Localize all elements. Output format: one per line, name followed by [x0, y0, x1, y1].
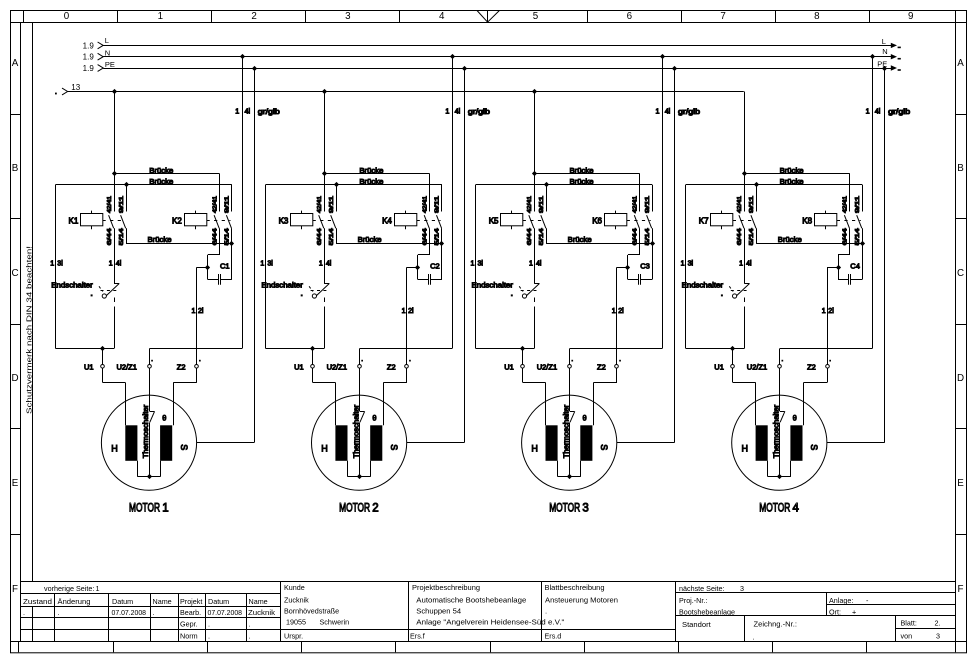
svg-text:Brücke: Brücke: [148, 235, 172, 244]
svg-text:07.07.2008: 07.07.2008: [208, 608, 243, 617]
svg-text:1: 1: [656, 107, 660, 116]
wire 13 drop to K7 contact: [744, 92, 746, 174]
svg-text:N: N: [882, 47, 887, 56]
contact K7.1 terminals 42/41 6/44: [744, 174, 746, 212]
svg-text:K4: K4: [382, 216, 392, 225]
svg-text:L: L: [105, 36, 109, 45]
wire left loop: [685, 185, 687, 349]
junction bridge 1: [532, 171, 537, 176]
svg-text:Thermoschalter: Thermoschalter: [351, 404, 360, 458]
contactor coil K1: [81, 214, 103, 226]
source arrow L left 1.9: [98, 42, 104, 49]
svg-text:S: S: [599, 444, 609, 450]
junction 13/K3: [322, 89, 327, 94]
svg-text:3: 3: [740, 584, 744, 593]
linkage dashes K7: [733, 220, 756, 222]
svg-text:Anlage:: Anlage:: [829, 596, 853, 605]
svg-text:Datum: Datum: [208, 597, 229, 606]
wire K4 to capacitor node: [418, 254, 430, 256]
svg-text:.: .: [23, 608, 25, 617]
svg-text:4l: 4l: [875, 107, 881, 116]
wire N drop to U2/Z1: [242, 57, 244, 349]
svg-text:Urspr.: Urspr.: [284, 632, 303, 641]
svg-text:A: A: [12, 58, 19, 69]
terminal Z2: [405, 365, 409, 369]
svg-text:Kunde: Kunde: [284, 583, 305, 592]
svg-text:S: S: [809, 444, 819, 450]
wire bridge 1 (K1->K2): [114, 173, 220, 175]
svg-text:4l: 4l: [116, 261, 122, 268]
svg-text:1: 1: [319, 261, 323, 268]
svg-text:2l: 2l: [408, 308, 414, 315]
svg-text:Z2: Z2: [807, 363, 816, 372]
svg-text:Blatt:: Blatt:: [901, 618, 917, 627]
terminal U1: [732, 349, 734, 365]
source arrow PE left 1.9: [98, 65, 104, 72]
svg-text:Z2: Z2: [387, 363, 396, 372]
terminal Z2: [195, 365, 199, 369]
source arrow 13 left: [62, 88, 68, 95]
svg-text:Brücke: Brücke: [359, 177, 383, 186]
svg-text:5/14: 5/14: [645, 228, 651, 245]
svg-text:1.9: 1.9: [83, 64, 95, 73]
svg-text:4l: 4l: [536, 261, 542, 268]
wire bridge 2 (loop->K4): [266, 184, 442, 186]
svg-text:Projektbeschreibung: Projektbeschreibung: [412, 583, 480, 592]
svg-text:gr/glb: gr/glb: [468, 107, 490, 116]
svg-text:U1: U1: [504, 363, 514, 372]
junction bridge 1: [322, 171, 327, 176]
svg-text:6/44: 6/44: [212, 228, 218, 245]
wire N drop to U2/Z1: [662, 57, 664, 349]
winding H motor 4: [756, 425, 768, 461]
svg-text:Datum: Datum: [112, 597, 133, 606]
svg-text:θ: θ: [793, 413, 797, 422]
contact K1.1 terminals 42/41 6/44: [114, 174, 116, 212]
svg-text:H: H: [531, 444, 538, 454]
svg-text:2l: 2l: [198, 308, 204, 315]
thermal switch motor 1: [149, 368, 151, 411]
svg-text:D: D: [11, 373, 18, 384]
contactor coil K4: [395, 214, 417, 226]
svg-text:U1: U1: [294, 363, 304, 372]
wire winding commons: [347, 461, 349, 477]
winding S motor 1: [160, 425, 172, 461]
junction U1 tap: [100, 346, 105, 351]
svg-text:4l: 4l: [746, 261, 752, 268]
wire PE rail: [103, 68, 893, 70]
junction PE: [252, 66, 257, 71]
junction bridge 2: [754, 182, 759, 187]
source arrow N left 1.9: [98, 53, 104, 60]
wire U1 to winding H: [522, 368, 524, 382]
wire bridge 2 (loop->K2): [56, 184, 232, 186]
winding S motor 3: [580, 425, 592, 461]
contactor coil K7: [711, 214, 733, 226]
svg-text:Änderung: Änderung: [58, 597, 91, 606]
dest arrow PE right: [891, 65, 897, 70]
svg-text:Brücke: Brücke: [358, 235, 382, 244]
svg-text:1: 1: [471, 261, 475, 268]
svg-text:9/11: 9/11: [855, 196, 861, 213]
svg-text:5/14: 5/14: [539, 228, 545, 245]
svg-text:6: 6: [627, 11, 633, 22]
winding H motor 2: [335, 425, 347, 461]
motor MOTOR 2 frame circle: [312, 395, 407, 490]
junction PE: [462, 66, 467, 71]
wire U1 to winding H: [732, 368, 734, 382]
wire Z2 to winding S: [827, 368, 829, 382]
capacitor node junction: [205, 265, 210, 270]
svg-text:+: +: [852, 607, 856, 616]
svg-text:42/41: 42/41: [633, 196, 639, 213]
svg-text:H: H: [742, 444, 749, 454]
svg-text:6/44: 6/44: [633, 228, 639, 245]
svg-text:Name: Name: [153, 597, 172, 606]
svg-text:θ: θ: [583, 413, 587, 422]
svg-text:.: .: [249, 619, 251, 628]
svg-text:1: 1: [681, 261, 685, 268]
terminal U1: [312, 349, 314, 365]
svg-text:Thermoschalter: Thermoschalter: [141, 404, 150, 458]
svg-text:Blattbeschreibung: Blattbeschreibung: [545, 583, 605, 592]
svg-text:Gepr.: Gepr.: [180, 619, 198, 628]
contact K5.1 terminals 42/41 6/44: [534, 174, 536, 212]
svg-text:1: 1: [96, 584, 100, 593]
svg-text:42/41: 42/41: [212, 196, 218, 213]
wire node to Z2 (1 21): [827, 267, 838, 269]
svg-text:1.9: 1.9: [83, 53, 95, 62]
thermal switch motor 3: [569, 368, 571, 411]
svg-text:4l: 4l: [665, 107, 671, 116]
contactor coil K3: [291, 214, 313, 226]
wire node to Z2 (1 21): [617, 267, 628, 269]
motor MOTOR 3 frame circle: [522, 395, 617, 490]
svg-text:Schutzvermerk nach DIN 34 beac: Schutzvermerk nach DIN 34 beachten!: [25, 246, 34, 414]
wire left loop: [475, 185, 477, 349]
svg-text:K8: K8: [802, 216, 812, 225]
contact K7.2 terminals 9/11 5/14: [756, 185, 758, 212]
svg-text:Bootshebeanlage: Bootshebeanlage: [679, 607, 735, 616]
capacitor C4: [838, 279, 848, 281]
svg-text:MOTOR: MOTOR: [759, 503, 790, 515]
svg-text:U2/Z1: U2/Z1: [117, 363, 137, 372]
wire bridge 1 (K5->K6): [534, 173, 640, 175]
svg-text:E: E: [12, 478, 19, 489]
svg-text:42/41: 42/41: [317, 196, 323, 213]
svg-text:Name: Name: [249, 597, 268, 606]
contact K2.1 terminals 42/41 6/44: [219, 174, 221, 212]
wire 13 drop to K3 contact: [324, 92, 326, 174]
svg-text:S: S: [389, 444, 399, 450]
junction U1 tap: [730, 346, 735, 351]
svg-text:B: B: [957, 163, 964, 174]
junction star point: [567, 474, 572, 479]
svg-text:9: 9: [908, 11, 913, 22]
svg-text:gr/glb: gr/glb: [678, 107, 700, 116]
wire PE drop to motor frame: [254, 68, 256, 442]
svg-text:Brücke: Brücke: [149, 166, 173, 175]
junction bridge 3: [229, 241, 234, 246]
junction star point: [357, 474, 362, 479]
contact K3.2 terminals 9/11 5/14: [336, 185, 338, 212]
wire bridge 3 (bottom): [126, 243, 232, 245]
svg-text:MOTOR: MOTOR: [129, 503, 160, 515]
svg-text:Ort:: Ort:: [829, 607, 841, 616]
svg-text:2: 2: [372, 503, 378, 515]
svg-text:Bornhövedstraße: Bornhövedstraße: [284, 607, 339, 616]
wire left loop: [55, 185, 57, 349]
capacitor C1: [208, 279, 218, 281]
svg-text:K2: K2: [172, 216, 182, 225]
junction 13/K1: [112, 89, 117, 94]
linkage dashes K3: [313, 220, 336, 222]
junction star point: [777, 474, 782, 479]
svg-text:6/44: 6/44: [843, 228, 849, 245]
svg-text:Bearb.: Bearb.: [180, 608, 201, 617]
svg-text:9/11: 9/11: [435, 196, 441, 213]
svg-text:.: .: [208, 619, 210, 628]
svg-text:1: 1: [192, 308, 196, 315]
terminal U2/Z1: [568, 365, 572, 369]
svg-text:Brücke: Brücke: [570, 166, 594, 175]
junction bridge 3: [439, 241, 444, 246]
junction star point: [147, 474, 152, 479]
svg-text:.: .: [545, 607, 547, 616]
svg-text:9/11: 9/11: [329, 196, 335, 213]
svg-text:4l: 4l: [455, 107, 461, 116]
svg-text:Endschalter: Endschalter: [51, 280, 93, 289]
svg-text:7: 7: [720, 11, 725, 22]
capacitor C3: [628, 279, 638, 281]
svg-text:8: 8: [814, 11, 820, 22]
wire Z2 to winding S: [616, 368, 618, 382]
svg-text:K7: K7: [699, 216, 709, 225]
svg-text:6/44: 6/44: [107, 228, 113, 245]
capacitor node junction: [415, 265, 420, 270]
svg-text:Brücke: Brücke: [359, 166, 383, 175]
svg-text:gr/glb: gr/glb: [888, 107, 910, 116]
svg-text:gr/glb: gr/glb: [258, 107, 280, 116]
svg-text:3l: 3l: [57, 261, 63, 268]
wire PE drop to motor frame: [674, 68, 676, 442]
svg-text:9/11: 9/11: [645, 196, 651, 213]
svg-text:Brücke: Brücke: [780, 166, 804, 175]
svg-text:2l: 2l: [828, 308, 834, 315]
svg-text:3: 3: [345, 11, 351, 22]
svg-text:K5: K5: [489, 216, 499, 225]
wire N rail: [103, 56, 893, 58]
svg-text:.: .: [753, 632, 755, 641]
svg-text:S: S: [179, 444, 189, 450]
svg-text:D: D: [957, 373, 964, 384]
svg-text:.: .: [58, 608, 60, 617]
svg-text:1: 1: [162, 503, 168, 515]
junction bridge 3: [860, 241, 865, 246]
thermal switch motor 4: [779, 368, 781, 411]
svg-text:K6: K6: [592, 216, 602, 225]
svg-text:3: 3: [582, 503, 588, 515]
svg-text:42/41: 42/41: [737, 196, 743, 213]
svg-text:3l: 3l: [267, 261, 273, 268]
contactor coil K5: [501, 214, 523, 226]
wire bridge 2 (loop->K6): [476, 184, 652, 186]
svg-text:Projekt: Projekt: [180, 597, 202, 606]
linkage dashes K8: [837, 220, 861, 222]
svg-text:L: L: [882, 37, 886, 46]
linkage dashes K1: [103, 220, 126, 222]
svg-text:Brücke: Brücke: [149, 177, 173, 186]
svg-text:6/44: 6/44: [317, 228, 323, 245]
svg-text:1: 1: [260, 261, 264, 268]
svg-text:1: 1: [445, 107, 449, 116]
svg-text:Brücke: Brücke: [778, 235, 802, 244]
svg-text:E: E: [957, 478, 964, 489]
wire U1 to winding H: [312, 368, 314, 382]
svg-text:42/41: 42/41: [422, 196, 428, 213]
svg-text:U2/Z1: U2/Z1: [327, 363, 347, 372]
svg-text:1: 1: [739, 261, 743, 268]
svg-text:K1: K1: [69, 216, 79, 225]
terminal U2/Z1: [148, 365, 152, 369]
wire PE drop to motor frame: [884, 68, 886, 442]
svg-text:4l: 4l: [326, 261, 332, 268]
terminal U1: [102, 349, 104, 365]
svg-text:Automatische Bootshebeanlage: Automatische Bootshebeanlage: [416, 595, 526, 604]
wire bridge 1 (K7->K8): [744, 173, 850, 175]
svg-text:4l: 4l: [245, 107, 251, 116]
svg-text:Schwerin: Schwerin: [320, 618, 350, 627]
svg-text:Endschalter: Endschalter: [682, 280, 724, 289]
contact K4.1 terminals 42/41 6/44: [429, 174, 431, 212]
svg-text:U2/Z1: U2/Z1: [537, 363, 557, 372]
dest arrow L right: [891, 43, 897, 48]
svg-text:5/14: 5/14: [329, 228, 335, 245]
contact K8.1 terminals 42/41 6/44: [849, 174, 851, 212]
wire Z2 to winding S: [196, 368, 198, 382]
wire 13 drop to K1 contact: [114, 92, 116, 174]
svg-text:MOTOR: MOTOR: [549, 503, 580, 515]
svg-text:.: .: [249, 631, 251, 640]
svg-text:6/44: 6/44: [422, 228, 428, 245]
contact K6.1 terminals 42/41 6/44: [639, 174, 641, 212]
wire N drop to U2/Z1: [452, 57, 454, 349]
svg-text:Zeichng.-Nr.:: Zeichng.-Nr.:: [754, 619, 797, 628]
svg-text:5/14: 5/14: [749, 228, 755, 245]
svg-text:Thermoschalter: Thermoschalter: [772, 404, 781, 458]
svg-text:07.07.2008: 07.07.2008: [112, 608, 147, 617]
svg-text:Endschalter: Endschalter: [261, 280, 303, 289]
terminal Z2: [615, 365, 619, 369]
junction N: [450, 54, 455, 59]
terminal U2/Z1: [778, 365, 782, 369]
wire K8 to capacitor node: [838, 254, 850, 256]
motor MOTOR 1 frame circle: [101, 395, 196, 490]
terminal Z2: [826, 365, 830, 369]
svg-text:Norm: Norm: [180, 631, 198, 640]
junction 13/K5: [532, 89, 537, 94]
svg-text:von: von: [901, 631, 913, 640]
wire left loop: [265, 185, 267, 349]
svg-text:2.: 2.: [935, 618, 941, 627]
svg-text:C1: C1: [220, 262, 230, 271]
svg-text:C2: C2: [430, 262, 440, 271]
svg-text:Standort: Standort: [682, 620, 712, 629]
junction bridge 2: [544, 182, 549, 187]
thermal switch motor 2: [359, 368, 361, 411]
junction PE: [882, 66, 887, 71]
svg-text:K3: K3: [279, 216, 289, 225]
capacitor node junction: [836, 265, 841, 270]
svg-text:2: 2: [251, 11, 256, 22]
svg-text:C: C: [11, 268, 18, 279]
svg-text:Z2: Z2: [177, 363, 186, 372]
wire node to Z2 (1 21): [197, 267, 208, 269]
svg-text:A: A: [957, 58, 964, 69]
wire 13 drop to K5 contact: [534, 92, 536, 174]
linkage dashes K2: [207, 220, 231, 222]
svg-text:9/11: 9/11: [539, 196, 545, 213]
svg-text:42/41: 42/41: [107, 196, 113, 213]
wire bridge 2 (loop->K8): [686, 184, 862, 186]
contact K1.2 terminals 9/11 5/14: [126, 185, 128, 212]
winding H motor 3: [546, 425, 558, 461]
svg-text:1: 1: [866, 107, 870, 116]
svg-text:F: F: [958, 584, 964, 595]
svg-text:0: 0: [64, 11, 70, 22]
wire winding commons: [767, 461, 769, 477]
contactor coil K8: [815, 214, 837, 226]
svg-text:3l: 3l: [478, 261, 484, 268]
junction bridge 1: [742, 171, 747, 176]
svg-text:9/11: 9/11: [225, 196, 231, 213]
svg-text:H: H: [321, 444, 328, 454]
contact K5.2 terminals 9/11 5/14: [546, 185, 548, 212]
svg-text:vorherige Seite:: vorherige Seite:: [44, 584, 94, 593]
svg-text:Z2: Z2: [597, 363, 606, 372]
svg-text:1: 1: [235, 107, 239, 116]
svg-text:1: 1: [822, 308, 826, 315]
svg-text:PE: PE: [105, 60, 115, 69]
wire PE drop to motor frame: [464, 68, 466, 442]
svg-text:42/41: 42/41: [843, 196, 849, 213]
svg-text:U1: U1: [84, 363, 94, 372]
wire K6 to capacitor node: [628, 254, 640, 256]
linkage dashes K5: [523, 220, 546, 222]
svg-text:Brücke: Brücke: [570, 177, 594, 186]
svg-text:Brücke: Brücke: [568, 235, 592, 244]
svg-text:nächste Seite:: nächste Seite:: [679, 584, 725, 593]
svg-text:6/44: 6/44: [527, 228, 533, 245]
wire N drop to U2/Z1: [872, 57, 874, 349]
svg-text:4: 4: [439, 11, 445, 22]
terminal U1: [522, 349, 524, 365]
contact K3.1 terminals 42/41 6/44: [324, 174, 326, 212]
svg-text:U1: U1: [714, 363, 724, 372]
svg-text:3l: 3l: [688, 261, 694, 268]
capacitor node junction: [625, 265, 630, 270]
wire winding commons: [137, 461, 139, 477]
svg-text:Schuppen 54: Schuppen 54: [416, 607, 461, 616]
svg-text:5/14: 5/14: [855, 228, 861, 245]
svg-text:Ansteuerung Motoren: Ansteuerung Motoren: [545, 595, 618, 604]
svg-text:.: .: [208, 631, 210, 640]
svg-text:C3: C3: [640, 262, 650, 271]
svg-text:6/44: 6/44: [737, 228, 743, 245]
svg-text:U2/Z1: U2/Z1: [747, 363, 767, 372]
svg-text:1: 1: [402, 308, 406, 315]
svg-text:C4: C4: [850, 262, 860, 271]
